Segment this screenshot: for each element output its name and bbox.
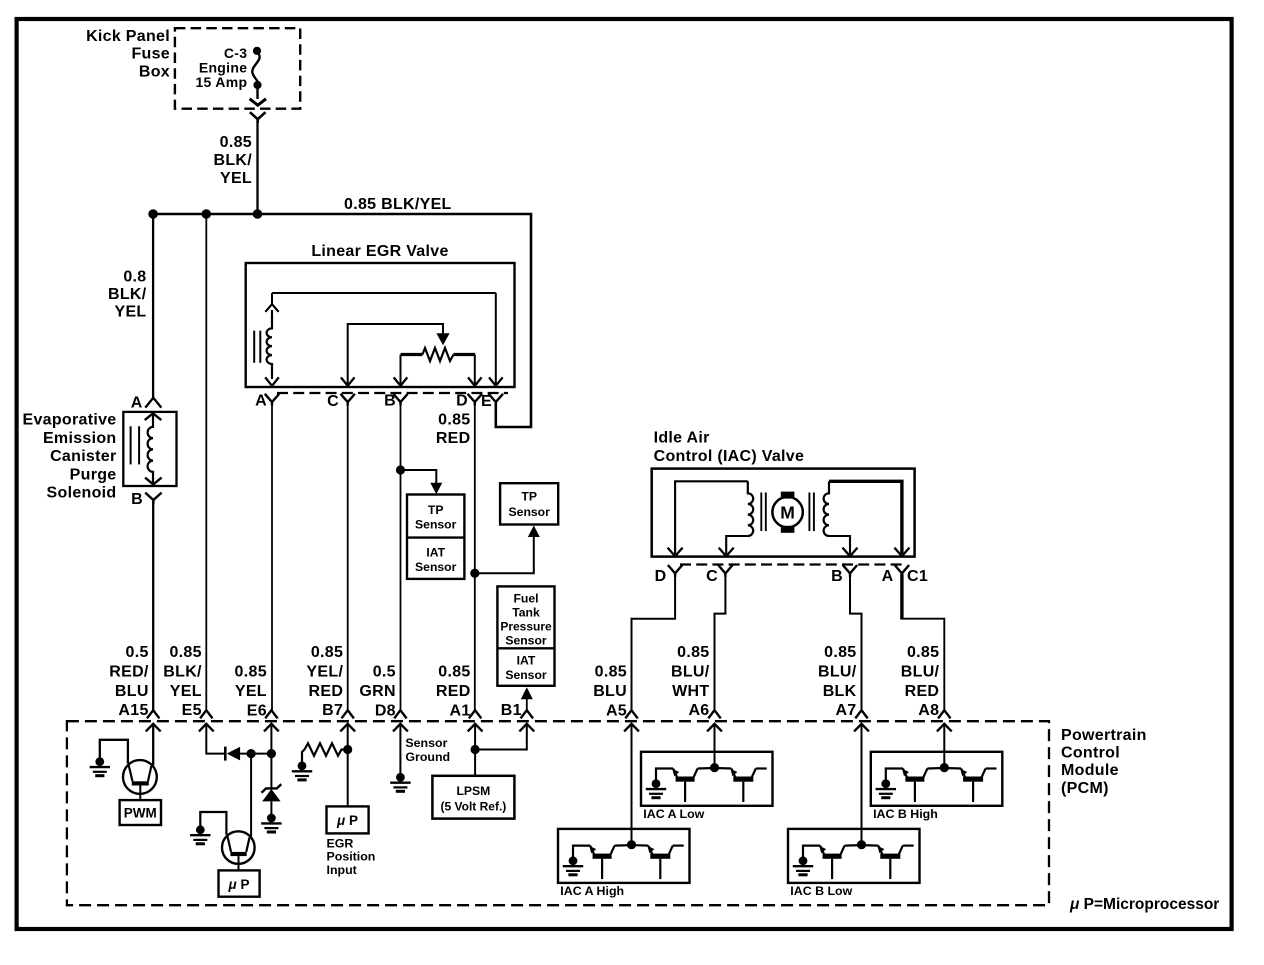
idle air control valve box	[652, 469, 915, 557]
svg-text:Fuel: Fuel	[513, 592, 538, 606]
svg-text:BLK/: BLK/	[108, 286, 147, 303]
PCM pin B7	[342, 710, 354, 718]
IAC terminal C connector	[718, 565, 732, 573]
ground at R2	[298, 762, 307, 771]
arrow IAC terminal C	[719, 548, 734, 557]
svg-text:Pressure: Pressure	[500, 620, 552, 634]
junction node at fuse feed	[253, 209, 263, 219]
svg-text:E6: E6	[247, 702, 267, 719]
arrow into TP/IAT sensor box	[430, 483, 442, 495]
svg-text:M: M	[780, 503, 795, 523]
svg-text:D8: D8	[375, 702, 396, 719]
svg-text:μ P=Microprocessor: μ P=Microprocessor	[1069, 896, 1219, 913]
svg-text:Kick Panel: Kick Panel	[86, 28, 170, 45]
svg-text:Sensor: Sensor	[505, 668, 547, 682]
EGR wiper branch to terminal C	[348, 324, 443, 385]
wire pin E6 to junction	[270, 724, 272, 754]
IAC B High driver transistors	[871, 752, 1003, 806]
svg-text:μ P: μ P	[336, 813, 358, 828]
svg-text:B: B	[131, 491, 143, 508]
diode D1	[224, 747, 227, 761]
svg-text:IAT: IAT	[426, 546, 445, 560]
svg-text:Solenoid: Solenoid	[47, 485, 117, 502]
junction node at E5 branch	[202, 209, 212, 219]
IAC winding B circuit (thick)	[829, 481, 902, 554]
IAC B Low driver transistors	[788, 829, 920, 883]
svg-text:EGR: EGR	[327, 836, 354, 850]
svg-text:A: A	[255, 393, 267, 410]
svg-text:0.85: 0.85	[235, 664, 267, 681]
svg-text:Emission: Emission	[43, 430, 117, 447]
junction node to Q2 collector	[247, 749, 256, 758]
wire pin D8 to ground	[399, 724, 401, 774]
svg-text:C: C	[706, 568, 718, 585]
ground at Q1	[95, 757, 104, 766]
PWM box	[120, 800, 161, 825]
PCM pin E5	[200, 710, 212, 718]
wire junction to Q2	[250, 754, 252, 837]
svg-text:YEL: YEL	[220, 170, 252, 187]
PCM pin E6	[265, 710, 277, 718]
IAC winding A circuit	[675, 481, 748, 554]
svg-text:BLK: BLK	[823, 683, 857, 700]
svg-text:A: A	[131, 395, 143, 412]
svg-text:BLU: BLU	[593, 683, 627, 700]
svg-text:A15: A15	[118, 702, 148, 719]
svg-text:YEL: YEL	[114, 304, 146, 321]
wire EGR B to PCM pin D8 (0.5 GRN)	[400, 403, 402, 711]
svg-text:Sensor: Sensor	[405, 736, 447, 750]
wire pin A6 into IAC A Low	[714, 724, 716, 768]
svg-text:Input: Input	[327, 863, 357, 877]
svg-text:BLU/: BLU/	[901, 663, 940, 680]
svg-text:YEL: YEL	[170, 683, 202, 700]
wire EGR D to PCM pin A1 (0.85 RED)	[474, 403, 476, 711]
wire pin A5 into IAC A High	[631, 724, 633, 845]
ground at zener	[267, 814, 276, 823]
ground at Q2	[196, 825, 205, 834]
svg-text:PWM: PWM	[124, 806, 157, 821]
svg-text:Purge: Purge	[70, 466, 117, 483]
svg-text:0.85: 0.85	[438, 411, 470, 428]
svg-text:Sensor: Sensor	[509, 505, 551, 519]
EGR internal top wire	[272, 292, 496, 294]
svg-text:IAC B High: IAC B High	[873, 807, 938, 821]
motor core lines right	[808, 493, 810, 532]
svg-text:BLU/: BLU/	[818, 663, 857, 680]
arrow at EGR terminal A	[265, 377, 279, 385]
IAC coil A	[748, 481, 753, 536]
PCM pin B1	[521, 710, 533, 718]
arrow into fuse box bottom	[250, 99, 266, 105]
solenoid terminal B connector	[145, 493, 161, 500]
EGR terminal B connector	[393, 394, 407, 402]
wire IAC A to PCM pin A8 (0.85 BLU/RED)	[900, 574, 903, 619]
svg-text:0.85 BLK/YEL: 0.85 BLK/YEL	[344, 196, 452, 213]
wire top to terminal E	[495, 293, 497, 385]
svg-text:0.5: 0.5	[126, 644, 149, 661]
connector Y below fuse box	[250, 112, 266, 119]
EGR position sensor potentiometer R1	[401, 353, 423, 356]
EGR connector dashed line	[277, 392, 508, 394]
IAC coil B	[824, 481, 829, 536]
svg-text:Control (IAC) Valve: Control (IAC) Valve	[654, 448, 805, 465]
svg-text:TP: TP	[521, 490, 537, 504]
EGR terminal E connector	[489, 394, 503, 402]
wire bus to PCM pin E5 (0.85 BLK/YEL)	[205, 214, 207, 711]
svg-text:C1: C1	[907, 568, 928, 585]
TP Sensor box	[500, 483, 558, 524]
svg-text:RED: RED	[436, 430, 471, 447]
wire Q2 base circuit to ground	[200, 812, 226, 835]
solenoid coil L1	[148, 413, 153, 484]
PCM pin A15	[147, 710, 159, 718]
svg-text:C: C	[327, 393, 339, 410]
svg-text:E: E	[481, 393, 492, 410]
IAC A Low driver transistors	[641, 752, 773, 806]
PWM transistor Q1	[123, 760, 157, 794]
TP Sensor / IAT Sensor stacked box	[407, 495, 464, 579]
wire pin A8 into IAC B High	[943, 724, 945, 768]
svg-text:RED: RED	[309, 683, 344, 700]
wire bus to solenoid A (0.8 BLK/YEL)	[152, 214, 154, 398]
EGR core lines	[253, 331, 255, 363]
svg-text:0.5: 0.5	[373, 664, 396, 681]
svg-text:RED: RED	[905, 683, 940, 700]
motor core lines left	[760, 493, 762, 532]
PCM pin A6	[708, 710, 720, 718]
wire IAC C to PCM pin A6 (0.85 BLU/WHT)	[715, 574, 726, 711]
powertrain control module dashed box	[67, 721, 1049, 905]
sensor ground symbol	[396, 773, 405, 782]
svg-text:A6: A6	[688, 702, 709, 719]
svg-text:RED/: RED/	[109, 663, 149, 680]
svg-text:Canister: Canister	[50, 448, 116, 465]
svg-text:15 Amp: 15 Amp	[195, 74, 247, 90]
svg-text:Ground: Ground	[405, 750, 450, 764]
svg-text:Box: Box	[139, 63, 170, 80]
junction node A1/B1	[471, 745, 480, 754]
wire EGR A to PCM pin E6 (0.85 YEL)	[271, 403, 273, 711]
arrow at EGR terminal E	[489, 377, 503, 385]
svg-text:YEL/: YEL/	[306, 663, 343, 680]
wire solenoid B to PCM pin A15 (0.5 RED/BLU)	[152, 501, 154, 711]
IAC motor M1	[772, 497, 802, 527]
svg-text:WHT: WHT	[672, 683, 709, 700]
svg-text:BLU: BLU	[115, 683, 149, 700]
PCM pin A8	[938, 710, 950, 718]
svg-text:Evaporative: Evaporative	[22, 412, 116, 429]
arrow at solenoid B	[145, 478, 162, 485]
IAC terminal B connector	[843, 565, 857, 573]
svg-text:IAT: IAT	[517, 653, 536, 667]
svg-text:A5: A5	[606, 702, 627, 719]
arrow from B1 into IAT sensor	[521, 687, 533, 699]
kick panel fuse box (dashed)	[175, 28, 300, 109]
microprocessor box at Q2	[219, 870, 260, 896]
arrow into TP sensor box	[528, 526, 540, 538]
EGR terminal C connector	[341, 394, 355, 402]
PCM pin D8	[394, 710, 406, 718]
svg-text:GRN: GRN	[359, 683, 395, 700]
linear EGR valve box	[246, 263, 515, 387]
wire pin B7 to uP box	[347, 724, 349, 807]
svg-text:0.85: 0.85	[677, 644, 709, 661]
solenoid core lines	[130, 426, 132, 464]
wire pin E5 to diode D1	[206, 724, 225, 754]
wire 0.85 BLK/YEL bus	[153, 214, 531, 427]
svg-text:0.85: 0.85	[595, 664, 627, 681]
EGR terminal A connector	[265, 394, 279, 402]
svg-text:Fuse: Fuse	[131, 46, 170, 63]
svg-text:0.85: 0.85	[907, 644, 939, 661]
junction node at EGR position resistor	[343, 745, 352, 754]
wire Q1 base circuit to ground	[100, 740, 128, 764]
svg-text:Sensor: Sensor	[415, 560, 457, 574]
svg-text:BLK/: BLK/	[213, 152, 252, 169]
junction node on E6 wire	[267, 749, 276, 758]
pot end to terminal D	[474, 355, 476, 386]
microprocessor box EGR position input	[327, 806, 369, 833]
wiper arrow onto potentiometer	[442, 324, 444, 334]
LPSM box	[432, 776, 514, 819]
svg-text:Control: Control	[1061, 745, 1120, 762]
arrow IAC terminal A	[894, 548, 909, 557]
svg-text:YEL: YEL	[235, 683, 267, 700]
junction node at solenoid branch	[148, 209, 158, 219]
wire pin A7 into IAC B Low	[861, 724, 863, 845]
Fuel Tank Pressure Sensor / IAT Sensor box	[497, 586, 554, 685]
svg-text:BLK/: BLK/	[163, 663, 202, 680]
svg-text:RED: RED	[436, 683, 471, 700]
junction node on D wire to TP sensor	[470, 569, 479, 578]
svg-text:IAC A High: IAC A High	[560, 884, 624, 898]
svg-text:Tank: Tank	[512, 605, 540, 619]
svg-text:A: A	[882, 568, 894, 585]
svg-text:(PCM): (PCM)	[1061, 780, 1109, 797]
svg-text:D: D	[655, 568, 667, 585]
arrow IAC terminal B	[843, 548, 858, 557]
wire IAC D to PCM pin A5 (0.85 BLU)	[632, 574, 676, 711]
svg-text:0.85: 0.85	[220, 134, 252, 151]
svg-text:(5 Volt Ref.): (5 Volt Ref.)	[441, 799, 507, 813]
svg-text:Sensor: Sensor	[505, 634, 547, 648]
svg-text:BLU/: BLU/	[671, 663, 710, 680]
svg-text:0.85: 0.85	[824, 644, 856, 661]
purge solenoid coil box	[123, 412, 176, 486]
solenoid terminal A connector	[145, 398, 161, 408]
pot end to terminal B	[400, 355, 402, 386]
svg-text:IAC B Low: IAC B Low	[790, 884, 852, 898]
PCM pin A1	[469, 710, 481, 718]
IAC terminal D connector	[668, 565, 682, 573]
arrow at EGR terminal B	[394, 377, 408, 385]
svg-text:B: B	[384, 393, 396, 410]
svg-text:A8: A8	[918, 702, 939, 719]
svg-text:0.85: 0.85	[311, 644, 343, 661]
svg-text:Sensor: Sensor	[415, 518, 457, 532]
wire fuse to bus	[256, 121, 258, 214]
wire pin A1 to LPSM	[474, 724, 476, 776]
microprocessor transistor Q2	[222, 831, 255, 864]
svg-text:Powertrain: Powertrain	[1061, 727, 1147, 744]
EGR solenoid coil	[267, 310, 272, 379]
zener diode Z1	[270, 754, 272, 790]
wire EGR C to PCM pin B7 (0.85 YEL/RED)	[347, 403, 349, 711]
arrow at EGR terminal D	[468, 377, 482, 385]
resistor R2 EGR position input	[302, 743, 348, 762]
svg-text:A7: A7	[835, 702, 856, 719]
svg-text:LPSM: LPSM	[456, 784, 490, 798]
svg-text:B: B	[831, 568, 843, 585]
IAC A High driver transistors	[558, 829, 690, 883]
svg-text:B1: B1	[501, 702, 522, 719]
svg-text:0.85: 0.85	[438, 664, 470, 681]
fuse C-3 symbol	[253, 47, 261, 55]
svg-text:0.8: 0.8	[123, 269, 146, 286]
wire pin A15 to PWM transistor	[152, 724, 154, 766]
svg-text:E5: E5	[182, 702, 202, 719]
svg-text:μ P: μ P	[228, 877, 250, 892]
svg-text:D: D	[456, 393, 468, 410]
svg-text:TP: TP	[428, 503, 444, 517]
svg-text:0.85: 0.85	[169, 644, 201, 661]
wire junction to pin B1	[475, 724, 527, 750]
IAC connector C1 dashed line	[680, 563, 903, 565]
IAC terminal A connector	[895, 565, 909, 573]
svg-text:B7: B7	[322, 702, 343, 719]
svg-text:Idle Air: Idle Air	[654, 429, 710, 446]
svg-text:IAC A Low: IAC A Low	[643, 807, 704, 821]
svg-text:Module: Module	[1061, 762, 1119, 779]
arrow IAC terminal D	[668, 548, 683, 557]
wire IAC B to PCM pin A7 (0.85 BLU/BLK)	[850, 574, 862, 711]
EGR terminal D connector	[468, 394, 482, 402]
arrow at EGR terminal C	[341, 377, 355, 385]
PCM pin A7	[855, 710, 867, 718]
EGR coil branch to terminal A	[271, 293, 273, 306]
svg-text:Linear EGR Valve: Linear EGR Valve	[311, 243, 448, 260]
svg-text:Position: Position	[327, 850, 376, 864]
PCM pin A5	[625, 710, 637, 718]
svg-text:A1: A1	[450, 702, 471, 719]
junction node on B wire to TP/IAT sensors	[396, 465, 405, 474]
